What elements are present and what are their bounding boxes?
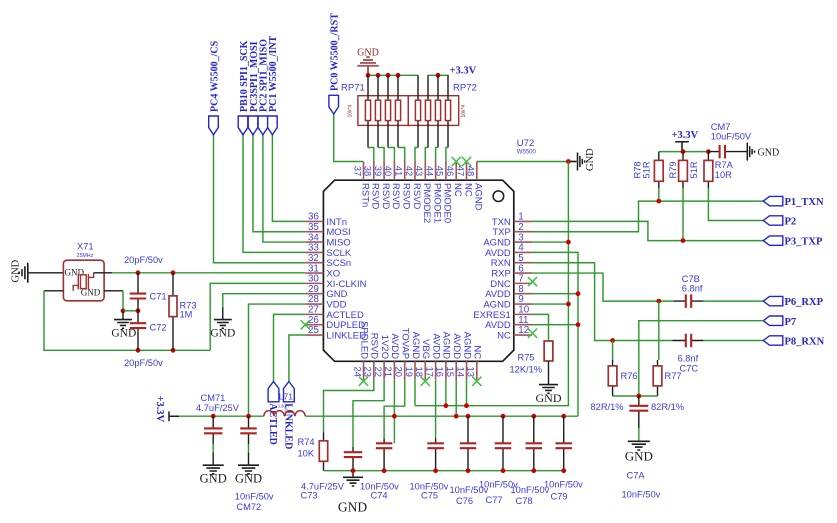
svg-text:24: 24 <box>352 367 363 377</box>
svg-text:+3.3V: +3.3V <box>450 66 477 77</box>
ground GND below R75 <box>539 385 558 394</box>
port PC1 W5500_/INT <box>268 116 278 135</box>
pin 6 RXP <box>514 272 532 274</box>
wire pin23 RSVD to R74 <box>324 380 374 433</box>
pin 37 RSTn <box>363 162 365 181</box>
wire R7A to P2 <box>708 188 763 221</box>
svg-text:48: 48 <box>466 166 477 176</box>
svg-text:NC: NC <box>452 183 463 197</box>
pin 43 PMODE2 <box>424 162 426 181</box>
wire X71 gnd pin down <box>122 291 124 311</box>
wire pin19 AGND drop <box>414 380 416 406</box>
svg-text:12K/1%: 12K/1% <box>510 365 543 375</box>
svg-text:X71: X71 <box>77 242 94 252</box>
svg-text:10nF/50v: 10nF/50v <box>235 492 274 502</box>
svg-text:GND: GND <box>11 259 22 282</box>
wire pin9 AGND <box>532 303 568 305</box>
pin 2 TXP <box>514 231 532 233</box>
svg-text:C7C: C7C <box>680 364 699 374</box>
wire PB10 to SCLK pin33 <box>243 134 305 252</box>
capacitor C79 10nF/50v <box>561 414 566 419</box>
svg-text:1M: 1M <box>180 310 193 320</box>
svg-text:R76: R76 <box>621 371 638 381</box>
svg-text:GND: GND <box>111 328 136 340</box>
pin 31 XO <box>305 272 323 274</box>
pin 27 ACTLED <box>305 313 323 315</box>
port LINKLED <box>284 382 295 402</box>
wire pin22 1V2O to C73 <box>353 380 384 447</box>
svg-text:25MHz: 25MHz <box>77 253 94 259</box>
pin 25 LINKLED <box>305 334 323 336</box>
resistor R7A 10R <box>707 152 709 188</box>
capacitor C72 20pF <box>137 311 139 351</box>
RP72 resistor element 3 <box>437 75 439 147</box>
svg-text:P7: P7 <box>785 317 797 328</box>
pin 48 AGND <box>476 162 478 181</box>
resistor R75 12K/1% <box>544 341 553 361</box>
wire PC3 to MOSI pin35 <box>253 134 305 231</box>
capacitor C76 10nF/50V <box>466 414 471 419</box>
port P8_RXN <box>763 336 783 345</box>
junction AGND vertical <box>566 159 571 164</box>
pin 8 AVDD <box>514 293 532 295</box>
no-connect X pin 7 DNC <box>528 277 537 286</box>
ground GND below CM71 <box>203 465 224 474</box>
pin 42 RSVD <box>414 162 416 181</box>
svg-text:AGND: AGND <box>410 332 421 360</box>
svg-text:P6_RXP: P6_RXP <box>785 297 824 308</box>
wire AGND pin48 to GND <box>477 161 576 163</box>
wire EXRES1 pin10 to R75 <box>532 314 549 341</box>
svg-text:C71: C71 <box>150 292 167 302</box>
ground GND right of chip <box>570 161 577 163</box>
pin 29 GND <box>305 293 323 295</box>
resistor R78 51R <box>658 152 660 188</box>
wire PC0 to RSTn pin37 <box>334 112 364 161</box>
wire R76 R77 bottoms <box>613 395 658 397</box>
wire AGND vertical bus <box>415 162 568 406</box>
svg-text:15: 15 <box>445 367 456 377</box>
svg-text:43: 43 <box>414 166 425 176</box>
ground GND below CM72 <box>238 465 259 474</box>
svg-text:VBG: VBG <box>420 339 431 359</box>
svg-text:10k*4: 10k*4 <box>461 104 467 117</box>
svg-text:21: 21 <box>383 367 394 377</box>
no-connect X pin 26 DUPLED <box>301 320 310 329</box>
wire RXN pin5 to C7C <box>532 263 672 341</box>
no-connect X pin 12 NC <box>528 329 537 338</box>
svg-text:CM71: CM71 <box>201 393 226 403</box>
RP71 resistor element 2 <box>377 75 379 147</box>
svg-text:13: 13 <box>466 367 477 377</box>
crystal X71 25MHz <box>63 260 104 301</box>
svg-text:R74: R74 <box>298 437 315 447</box>
pin 22 1V2O <box>383 361 385 380</box>
svg-text:39: 39 <box>373 166 384 176</box>
no-connect X pins 24 18 13 <box>359 377 368 386</box>
capacitor C78 10nF/50V <box>531 414 536 419</box>
svg-text:47: 47 <box>455 166 466 176</box>
svg-text:C74: C74 <box>371 491 388 501</box>
resistor R73 1M <box>172 273 174 351</box>
wire TXP pin2 to P1_TXN <box>532 201 763 232</box>
svg-text:18: 18 <box>414 367 425 377</box>
svg-text:41: 41 <box>394 166 405 176</box>
wire X71 to XI bottom <box>44 291 210 351</box>
svg-text:NC: NC <box>497 331 511 342</box>
svg-text:RP71: RP71 <box>341 83 365 94</box>
pin 47 NC <box>466 162 468 181</box>
svg-text:C76: C76 <box>456 496 473 506</box>
svg-text:10K: 10K <box>298 449 315 459</box>
ground GND bottom center <box>352 471 354 478</box>
svg-text:6.8nf: 6.8nf <box>678 354 699 364</box>
svg-text:40: 40 <box>383 166 394 176</box>
svg-text:PMODE1: PMODE1 <box>431 183 442 223</box>
svg-text:20: 20 <box>394 367 405 377</box>
svg-text:P2: P2 <box>785 217 797 228</box>
junction dots on RP71/RP72 buses <box>366 73 371 78</box>
wire LINKLED pin25 <box>289 335 305 381</box>
no-connect X pins 46 47 <box>452 157 461 166</box>
svg-text:TOVAP: TOVAP <box>400 328 411 359</box>
wire XI up to pin30 <box>210 283 305 350</box>
svg-text:RSVD: RSVD <box>369 333 380 360</box>
svg-text:RSVD: RSVD <box>390 183 401 210</box>
svg-text:PMODE0: PMODE0 <box>442 183 453 223</box>
svg-text:C79: C79 <box>551 491 568 501</box>
svg-text:+3.3V: +3.3V <box>672 130 699 141</box>
pin 45 PMODE0 <box>445 162 447 181</box>
capacitor C75 10nF/50v <box>435 439 437 471</box>
ground GND right of CM7 <box>747 143 754 161</box>
svg-text:C73: C73 <box>301 491 318 501</box>
wire RXP pin6 to C7B <box>532 273 674 301</box>
resistor R74 10K <box>323 433 325 471</box>
ground GND below C7A <box>628 441 650 450</box>
svg-text:RSVD: RSVD <box>401 183 412 210</box>
pin 17 AVDD <box>435 361 437 380</box>
pin 21 AVDD <box>393 361 395 380</box>
svg-text:C72: C72 <box>150 323 167 333</box>
pin 7 DNC <box>514 282 532 284</box>
svg-text:AVDD: AVDD <box>389 333 400 359</box>
wire AVDD vertical bus pins 4 8 11 <box>532 252 578 416</box>
pin 38 RSVD <box>373 162 375 181</box>
svg-text:82R/1%: 82R/1% <box>651 402 684 412</box>
svg-text:AGND: AGND <box>441 332 452 360</box>
svg-text:RSVD: RSVD <box>370 183 381 210</box>
RP71 resistor element 1 <box>367 75 369 147</box>
pin 35 MOSI <box>305 231 323 233</box>
capacitor C73 4.7uF/25V <box>352 447 354 471</box>
RP72 resistor element 1 <box>417 75 419 147</box>
svg-text:C7A: C7A <box>627 471 646 481</box>
port P3_TXP <box>763 236 783 245</box>
wire bottom gnd bus <box>324 470 564 472</box>
svg-text:17: 17 <box>424 367 435 377</box>
svg-text:37: 37 <box>352 166 363 176</box>
wire pin16 AGND drop <box>445 380 447 406</box>
svg-text:51R: 51R <box>689 161 699 178</box>
pin 16 AGND <box>445 361 447 380</box>
svg-text:AGND: AGND <box>473 183 484 211</box>
inductor L71 <box>264 411 306 417</box>
pin 41 RSVD <box>404 162 406 181</box>
pin 39 RSVD <box>383 162 385 181</box>
capacitor C7A 10nF/50v <box>638 396 640 428</box>
wire pin20 TOVAP to C74 <box>384 380 405 439</box>
pin 13 NC <box>476 361 478 380</box>
svg-text:R77: R77 <box>665 371 682 381</box>
wire pin3 AGND <box>532 241 568 243</box>
port P1_TXN <box>763 196 783 205</box>
svg-text:10nF/50v: 10nF/50v <box>622 490 661 500</box>
port PB10 SPI1_SCK <box>238 116 248 135</box>
wire jogs RP71 to pins 38-41 <box>368 148 374 162</box>
wire C7B to P6_RXP <box>703 300 763 302</box>
svg-text:16: 16 <box>435 367 446 377</box>
svg-text:GND: GND <box>758 147 780 158</box>
svg-text:RSTn: RSTn <box>359 183 370 207</box>
svg-text:14: 14 <box>455 367 466 377</box>
svg-text:NC: NC <box>462 183 473 197</box>
pin 18 VBG <box>424 361 426 380</box>
resistor R77 82R/1% <box>656 299 661 304</box>
wire pin17 AVDD to C75 <box>435 380 437 439</box>
svg-text:R7A: R7A <box>715 160 734 170</box>
resistor R79 51R <box>682 152 684 188</box>
pin 30 XI-CLKIN <box>305 282 323 284</box>
svg-text:10R: 10R <box>715 170 732 180</box>
pin 14 AGND <box>466 361 468 380</box>
svg-text:44: 44 <box>424 166 435 176</box>
svg-text:45: 45 <box>435 166 446 176</box>
svg-text:AVDD: AVDD <box>451 333 462 359</box>
wire PC4 to SCSn pin32 <box>214 134 306 262</box>
wire pin15 AVDD drop <box>455 380 457 416</box>
port ACTLED <box>268 382 279 402</box>
resistor pack RP71 <box>358 96 408 126</box>
svg-text:SPDLED: SPDLED <box>358 321 369 359</box>
capacitor CM72 10nF/50v <box>246 414 251 419</box>
svg-text:AVDD: AVDD <box>430 333 441 359</box>
svg-text:GND: GND <box>338 500 367 515</box>
pin 12 NC <box>514 334 532 336</box>
X71 pins <box>44 273 123 291</box>
pin 5 RXN <box>514 262 532 264</box>
svg-text:1V2O: 1V2O <box>379 335 390 359</box>
port P2 <box>763 216 783 225</box>
U72 pin-1 indicator circle <box>493 191 504 202</box>
wire VDD pin28 to rail <box>249 304 306 416</box>
capacitor C7C 6.8nf <box>672 340 703 342</box>
pin 26 DUPLED <box>305 324 323 326</box>
resistor pack RP72 <box>408 96 458 126</box>
pin 40 RSVD <box>393 162 395 181</box>
svg-text:23: 23 <box>363 367 374 377</box>
svg-text:L71: L71 <box>279 391 293 401</box>
pin 23 RSVD <box>373 361 375 380</box>
ground GND below X71 caps <box>122 311 124 320</box>
wire XO line <box>112 272 305 274</box>
wire RP72 +3.3V bus <box>428 74 449 76</box>
RP72 resistor element 4 <box>447 75 449 147</box>
port PC4 W5500_/CS <box>209 116 219 135</box>
svg-text:82R/1%: 82R/1% <box>591 402 624 412</box>
svg-text:PMODE2: PMODE2 <box>421 183 432 223</box>
svg-text:6.8nf: 6.8nf <box>682 284 703 294</box>
wire TXN pin1 to P3_TXP <box>532 221 763 240</box>
svg-text:10k*4: 10k*4 <box>348 104 354 117</box>
svg-text:25: 25 <box>308 325 319 336</box>
svg-text:R79: R79 <box>668 161 678 178</box>
svg-text:GND: GND <box>200 472 227 486</box>
svg-text:46: 46 <box>445 166 456 176</box>
svg-text:4.7uF/25V: 4.7uF/25V <box>196 403 240 413</box>
svg-text:C77: C77 <box>486 495 503 505</box>
port PC0 W5500_/RST <box>329 95 339 114</box>
pin 19 AGND <box>414 361 416 380</box>
svg-text:C78: C78 <box>516 496 533 506</box>
pin 44 PMODE1 <box>435 162 437 181</box>
svg-text:+3.3V: +3.3V <box>154 396 165 423</box>
port PC2 SPI1_MISO <box>258 116 268 135</box>
svg-text:ACTLED: ACTLED <box>267 403 278 445</box>
svg-text:GND: GND <box>625 449 653 464</box>
svg-text:P8_RXN: P8_RXN <box>785 337 825 348</box>
capacitor C77 10nF/50v <box>501 414 506 419</box>
wire RP71 gnd bus <box>368 74 418 76</box>
resistor R76 82R/1% <box>610 338 615 343</box>
ground GND mid pin29 <box>223 294 305 307</box>
wire C7C to P8_RXN <box>703 340 763 342</box>
pin 32 SCSn <box>305 262 323 264</box>
svg-text:3.3uH: 3.3uH <box>278 404 289 409</box>
svg-text:RP72: RP72 <box>453 83 477 94</box>
pin 4 AVDD <box>514 251 532 253</box>
wire P7 to C7A node <box>639 321 764 396</box>
svg-text:22: 22 <box>373 367 384 377</box>
svg-text:20pF/50v: 20pF/50v <box>124 358 163 368</box>
svg-text:CM7: CM7 <box>711 122 731 132</box>
RP72 resistor element 2 <box>427 75 429 147</box>
pin 24 SPDLED <box>363 361 365 380</box>
svg-text:38: 38 <box>363 166 374 176</box>
svg-text:U72: U72 <box>517 138 534 149</box>
pin 46 NC <box>455 162 457 181</box>
pin 28 VDD <box>305 303 323 305</box>
svg-text:19: 19 <box>404 367 415 377</box>
svg-text:PC0 W5500_/RST: PC0 W5500_/RST <box>330 13 341 91</box>
pin 36 INTn <box>305 220 323 222</box>
pin 15 AVDD <box>455 361 457 380</box>
svg-text:C75: C75 <box>421 491 438 501</box>
svg-text:GND: GND <box>210 328 235 340</box>
svg-text:AGND: AGND <box>461 332 472 360</box>
svg-text:RSVD: RSVD <box>411 183 422 210</box>
pin 1 TXN <box>514 220 532 222</box>
svg-text:RSVD: RSVD <box>380 183 391 210</box>
wire +3.3V TX bus <box>659 151 709 153</box>
wire 3.3V rail left <box>179 415 264 417</box>
RP71 resistor element 3 <box>387 75 389 147</box>
svg-text:NC: NC <box>472 345 483 359</box>
wire pin21 AVDD to rail <box>393 380 395 444</box>
svg-text:51R: 51R <box>642 161 652 178</box>
pin 3 AGND <box>514 241 532 243</box>
svg-text:PC4 W5500_/CS: PC4 W5500_/CS <box>209 40 220 112</box>
wire ACTLED pin27 <box>274 314 306 381</box>
port PC3 SPI1_MOSI <box>248 116 258 135</box>
svg-text:20pF/50v: 20pF/50v <box>124 255 163 265</box>
wire pin14 AGND drop <box>466 380 468 406</box>
pin 34 MISO <box>305 241 323 243</box>
RP71 resistor element 4 <box>397 75 399 147</box>
wire PC2 to MISO pin34 <box>263 134 305 242</box>
svg-text:P3_TXP: P3_TXP <box>785 237 824 248</box>
svg-text:42: 42 <box>404 166 415 176</box>
svg-text:R75: R75 <box>518 353 535 363</box>
wire cap mid link <box>123 310 138 312</box>
svg-text:CM72: CM72 <box>236 502 261 512</box>
wire PC1 to INTn pin36 <box>272 134 305 221</box>
pin 9 AGND <box>514 303 532 305</box>
svg-text:GND: GND <box>536 391 562 405</box>
pin 33 SCLK <box>305 251 323 253</box>
pin 10 EXRES1 <box>514 313 532 315</box>
op-amp U72 W5500 chip body <box>323 180 513 361</box>
port P7 <box>763 316 783 325</box>
svg-text:10nF/50v: 10nF/50v <box>544 480 583 490</box>
capacitor C74 10nF/50v <box>383 439 385 471</box>
svg-text:C7B: C7B <box>682 274 700 284</box>
svg-text:W5500: W5500 <box>517 150 537 156</box>
svg-text:P1_TXN: P1_TXN <box>785 197 825 208</box>
svg-text:GND: GND <box>585 148 596 171</box>
pin 11 AVDD <box>514 324 532 326</box>
svg-text:12: 12 <box>518 325 529 336</box>
port P6_RXP <box>763 296 783 305</box>
wire 3.3V rail right (AVDD) <box>305 415 578 417</box>
wire jogs RP72 to pins 42-45 <box>415 148 418 162</box>
svg-text:GND: GND <box>235 472 262 486</box>
svg-text:PC1 W5500_/INT: PC1 W5500_/INT <box>268 35 279 112</box>
pin 20 TOVAP <box>404 361 406 380</box>
svg-text:10uF/50V: 10uF/50V <box>711 132 752 142</box>
